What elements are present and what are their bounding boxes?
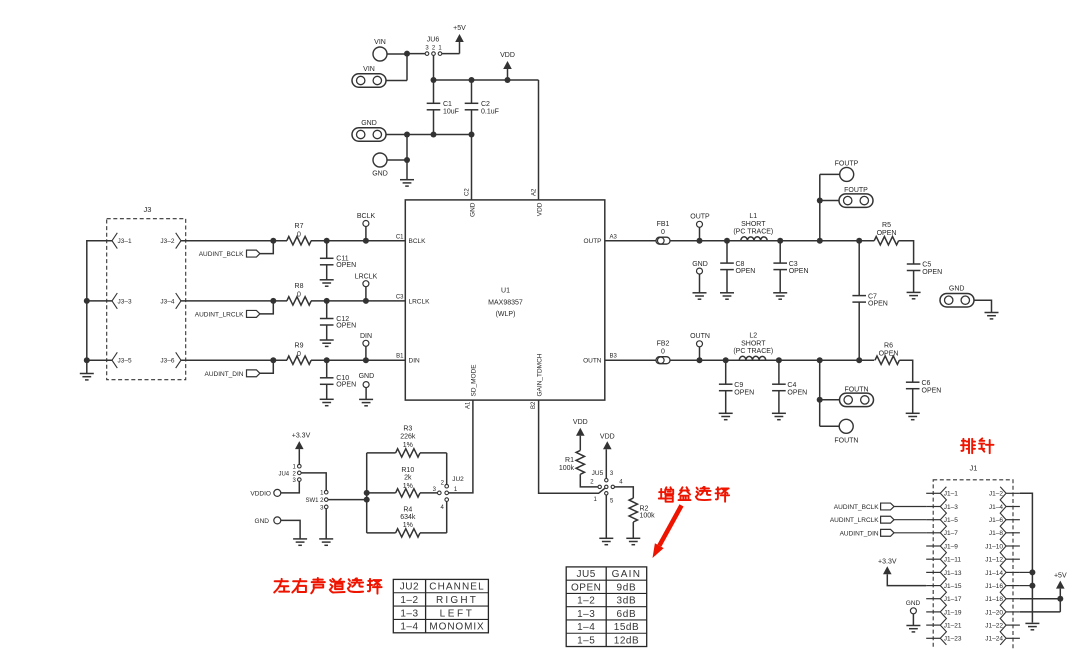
svg-text:GND: GND bbox=[359, 373, 375, 380]
svg-text:B3: B3 bbox=[610, 354, 618, 360]
svg-text:J1–12: J1–12 bbox=[985, 557, 1003, 564]
ground symbol top-left bbox=[400, 179, 414, 181]
svg-text:AUDINT_LRCLK: AUDINT_LRCLK bbox=[830, 517, 879, 524]
svg-text:A3: A3 bbox=[610, 234, 618, 240]
svg-text:L1: L1 bbox=[749, 213, 757, 220]
node DIN junction bbox=[363, 357, 369, 363]
svg-text:J3–3: J3–3 bbox=[118, 298, 132, 305]
capacitor C5 OPEN bbox=[907, 263, 921, 265]
svg-text:OPEN: OPEN bbox=[336, 262, 356, 269]
wire FOUTN branch bbox=[820, 360, 840, 426]
svg-text:(PC TRACE): (PC TRACE) bbox=[733, 229, 773, 236]
svg-text:CHANNEL: CHANNEL bbox=[429, 582, 485, 593]
svg-text:L2: L2 bbox=[749, 333, 757, 340]
svg-text:GND: GND bbox=[949, 285, 965, 292]
svg-text:OPEN: OPEN bbox=[879, 351, 899, 358]
capacitor C1 10uF bbox=[433, 80, 435, 103]
node FOUTN branch junction bbox=[817, 357, 823, 363]
svg-text:LRCLK: LRCLK bbox=[355, 273, 378, 280]
pin J3&#8211;1 bbox=[112, 233, 117, 249]
svg-text:J1–11: J1–11 bbox=[944, 557, 962, 564]
svg-text:J1–13: J1–13 bbox=[944, 570, 962, 577]
svg-text:J1–23: J1–23 bbox=[944, 636, 962, 643]
capacitor C4 OPEN bbox=[778, 360, 780, 384]
ground symbol below OUTP tp bbox=[693, 292, 707, 294]
svg-text:OPEN: OPEN bbox=[336, 382, 356, 389]
svg-text:GAIN_TDMCH: GAIN_TDMCH bbox=[536, 353, 543, 396]
svg-text:OUTN: OUTN bbox=[583, 358, 602, 365]
wire VDD rail bbox=[434, 80, 539, 200]
pin J1-22 bbox=[1006, 624, 1020, 626]
svg-text:R5: R5 bbox=[882, 222, 891, 229]
svg-text:R8: R8 bbox=[295, 283, 304, 290]
svg-text:JU2: JU2 bbox=[452, 476, 464, 483]
svg-text:GND: GND bbox=[255, 518, 270, 525]
table JU2 CHANNEL bbox=[393, 579, 488, 632]
test point GND circle bbox=[373, 153, 387, 167]
svg-text:JU6: JU6 bbox=[427, 37, 440, 44]
svg-text:GAIN: GAIN bbox=[612, 569, 642, 580]
resistor R3 226k 1% bbox=[367, 452, 396, 454]
svg-text:J3–2: J3–2 bbox=[160, 238, 174, 245]
svg-text:FB2: FB2 bbox=[657, 341, 670, 348]
svg-text:AUDINT_BCLK: AUDINT_BCLK bbox=[199, 251, 244, 258]
wire OUTP/OUTN rail y=240.7 bbox=[605, 240, 656, 242]
node J1-14 junction bbox=[1029, 569, 1035, 575]
pin J1-21 bbox=[926, 624, 940, 626]
svg-text:J3–5: J3–5 bbox=[118, 358, 132, 365]
svg-text:OPEN: OPEN bbox=[336, 322, 356, 329]
wire J1-14 to ground bus bbox=[1020, 571, 1033, 573]
red label pai-zhen (pin header) bbox=[961, 439, 975, 453]
pin J3&#8211;5 bbox=[112, 352, 117, 368]
pin J1-15 bbox=[926, 585, 940, 587]
pin J1-12 bbox=[1006, 558, 1020, 560]
svg-text:J1–16: J1–16 bbox=[985, 583, 1003, 590]
wire VDDIO to JU4 pin3 bbox=[281, 481, 300, 493]
svg-text:VIN: VIN bbox=[363, 66, 375, 73]
ground symbol under J1 GND tp bbox=[906, 625, 920, 627]
svg-text:0: 0 bbox=[297, 231, 301, 238]
svg-text:R3: R3 bbox=[403, 426, 412, 433]
svg-text:226k: 226k bbox=[400, 434, 416, 441]
svg-text:J1–14: J1–14 bbox=[985, 570, 1003, 577]
red arrow to JU5 table bbox=[659, 505, 681, 545]
node C9 junction bbox=[723, 357, 729, 363]
wire FOUTP branch bbox=[820, 174, 840, 240]
svg-text:AUDINT_DIN: AUDINT_DIN bbox=[204, 371, 243, 378]
svg-text:100k: 100k bbox=[640, 513, 656, 520]
svg-text:0: 0 bbox=[661, 348, 665, 355]
svg-text:1%: 1% bbox=[403, 483, 413, 490]
capacitor C7 OPEN bbox=[858, 241, 860, 296]
wire J1-2 to ground bus bbox=[1020, 493, 1033, 622]
node OUTN junction bbox=[697, 357, 703, 363]
svg-text:0: 0 bbox=[661, 229, 665, 236]
svg-text:R7: R7 bbox=[295, 223, 304, 230]
pin J1-16 bbox=[1006, 585, 1020, 587]
svg-text:+3.3V: +3.3V bbox=[292, 433, 311, 440]
svg-text:+5V: +5V bbox=[453, 25, 466, 32]
wire J1-16 to ground bus bbox=[1020, 585, 1033, 587]
svg-text:AUDINT_LRCLK: AUDINT_LRCLK bbox=[195, 311, 244, 318]
red label zeng-yi-xuan-ze (gain select) bbox=[659, 487, 673, 501]
ground symbol under GND tp bbox=[293, 538, 307, 540]
wire resistor bus vertical bbox=[366, 453, 368, 533]
svg-text:J1–8: J1–8 bbox=[989, 530, 1003, 537]
svg-text:OPEN: OPEN bbox=[734, 389, 754, 396]
wire J3 left bus bbox=[87, 241, 112, 374]
node C7 bottom junction bbox=[856, 357, 862, 363]
svg-text:U1: U1 bbox=[501, 288, 510, 295]
ground symbol C3 bbox=[773, 292, 787, 294]
svg-text:OPEN: OPEN bbox=[922, 387, 942, 394]
wire JU4 pin2 to SW1 pin1 bbox=[301, 473, 326, 491]
svg-text:12dB: 12dB bbox=[614, 635, 639, 646]
svg-text:634k: 634k bbox=[400, 514, 416, 521]
svg-text:3dB: 3dB bbox=[616, 596, 636, 607]
svg-text:BCLK: BCLK bbox=[409, 238, 427, 245]
svg-text:OPEN: OPEN bbox=[877, 230, 897, 237]
svg-text:1%: 1% bbox=[403, 442, 413, 449]
svg-text:GND: GND bbox=[692, 261, 708, 268]
svg-text:C4: C4 bbox=[787, 382, 796, 389]
svg-text:100k: 100k bbox=[559, 465, 575, 472]
pin J1-14 bbox=[1006, 571, 1020, 573]
resistor R8 0 bbox=[287, 297, 311, 305]
pin J1-11 bbox=[926, 558, 940, 560]
svg-text:JU2: JU2 bbox=[400, 582, 419, 593]
svg-text:FOUTN: FOUTN bbox=[834, 438, 858, 445]
node LRCLK junction bbox=[363, 298, 369, 304]
capacitor C3 OPEN bbox=[779, 241, 781, 263]
wire JU6 pin1 to +5V bbox=[442, 42, 460, 54]
wire R5 to C5 bbox=[899, 241, 914, 264]
svg-text:J3–6: J3–6 bbox=[160, 358, 174, 365]
svg-text:0: 0 bbox=[297, 351, 301, 358]
node FOUTN oval junction bbox=[817, 397, 823, 403]
connector J1 left pin zigzag bbox=[940, 487, 946, 645]
node C7 top junction bbox=[856, 238, 862, 244]
pin J1-17 bbox=[926, 598, 940, 600]
svg-text:SHORT: SHORT bbox=[741, 221, 766, 228]
svg-text:LEFT: LEFT bbox=[440, 608, 475, 619]
connector J1 dashed outline bbox=[933, 480, 1013, 649]
svg-text:1–4: 1–4 bbox=[577, 622, 595, 633]
ground symbol C5 bbox=[907, 291, 921, 293]
svg-text:1–5: 1–5 bbox=[577, 635, 595, 646]
resistor R9 0 bbox=[287, 356, 311, 364]
node GND tp junction bbox=[404, 157, 410, 163]
wire U1 GAIN pin to JU5 bbox=[539, 400, 605, 493]
wire GND drop bbox=[406, 135, 408, 180]
node VDD rail bbox=[431, 77, 437, 83]
svg-text:C5: C5 bbox=[922, 262, 931, 269]
svg-text:R1: R1 bbox=[565, 457, 574, 464]
capacitor C11 OPEN bbox=[326, 241, 328, 259]
node J1-16 junction bbox=[1029, 583, 1035, 589]
pin J1-24 bbox=[1006, 637, 1020, 639]
svg-text:R10: R10 bbox=[401, 467, 414, 474]
node BCLK junction bbox=[363, 238, 369, 244]
ground symbol right bbox=[985, 312, 999, 314]
svg-text:J1: J1 bbox=[969, 464, 977, 473]
svg-text:J1–17: J1–17 bbox=[944, 596, 962, 603]
node J3 bus junctions bbox=[84, 298, 90, 304]
svg-text:J1–10: J1–10 bbox=[985, 543, 1003, 550]
wire R4 to JU2 pin4 bbox=[446, 501, 448, 533]
svg-text:J1–3: J1–3 bbox=[944, 504, 958, 511]
resistor R7 0 bbox=[287, 237, 311, 245]
svg-text:J1–1: J1–1 bbox=[944, 491, 958, 498]
svg-text:FB1: FB1 bbox=[657, 221, 670, 228]
svg-text:1–3: 1–3 bbox=[400, 608, 418, 619]
svg-text:VDD: VDD bbox=[600, 433, 615, 440]
capacitor C10 OPEN bbox=[326, 360, 328, 378]
svg-text:B2: B2 bbox=[531, 401, 537, 409]
svg-text:2k: 2k bbox=[404, 475, 412, 482]
connector J1 right pin zigzag bbox=[1000, 487, 1006, 645]
resistor R2 100k bbox=[629, 498, 637, 522]
wire R3 to JU2 pin2 bbox=[446, 453, 448, 485]
ground symbol C12 bbox=[320, 339, 334, 341]
svg-text:GND: GND bbox=[361, 120, 377, 127]
wire R2 to ground bbox=[632, 522, 634, 538]
node R8 output junction bbox=[324, 298, 330, 304]
svg-text:J1–9: J1–9 bbox=[944, 543, 958, 550]
svg-text:GND: GND bbox=[906, 600, 921, 607]
svg-text:C7: C7 bbox=[868, 293, 877, 300]
node FOUTP oval junction bbox=[817, 198, 823, 204]
pin J1-9 bbox=[926, 545, 940, 547]
svg-text:OUTP: OUTP bbox=[690, 213, 710, 220]
svg-text:J1–18: J1–18 bbox=[985, 596, 1003, 603]
pin J1-10 bbox=[1006, 545, 1020, 547]
svg-text:J1–6: J1–6 bbox=[989, 517, 1003, 524]
svg-text:+3.3V: +3.3V bbox=[878, 558, 897, 565]
svg-text:OUTP: OUTP bbox=[583, 238, 601, 245]
wire VIN to JU6 pin3 bbox=[407, 53, 425, 55]
svg-text:OUTN: OUTN bbox=[690, 333, 710, 340]
svg-text:OPEN: OPEN bbox=[789, 268, 809, 275]
svg-text:A1: A1 bbox=[466, 401, 472, 409]
svg-text:VIN: VIN bbox=[374, 39, 386, 46]
wire JU6 pin2 to VDD rail bbox=[433, 55, 435, 80]
svg-text:1–3: 1–3 bbox=[577, 609, 595, 620]
node J1-18 junction bbox=[1057, 596, 1063, 602]
svg-text:AUDINT_DIN: AUDINT_DIN bbox=[840, 530, 879, 537]
svg-text:C1: C1 bbox=[396, 234, 404, 240]
svg-text:JU4 2: JU4 2 bbox=[278, 472, 296, 478]
svg-text:10uF: 10uF bbox=[443, 108, 459, 115]
svg-text:LRCLK: LRCLK bbox=[409, 298, 431, 305]
op-amp U1 MAX98357 body bbox=[405, 200, 605, 400]
pin J1-23 bbox=[926, 637, 940, 639]
svg-text:0: 0 bbox=[297, 292, 301, 299]
wire C2 bottom to U1 GND pin bbox=[471, 135, 473, 200]
node AUDINT_BCLK junction bbox=[270, 238, 276, 244]
ground symbol C8 bbox=[720, 292, 734, 294]
svg-text:JU5: JU5 bbox=[577, 569, 596, 580]
ground symbol C6 bbox=[906, 412, 920, 414]
svg-text:BCLK: BCLK bbox=[357, 213, 376, 220]
pin J3&#8211;3 bbox=[112, 293, 117, 309]
svg-text:RIGHT: RIGHT bbox=[436, 595, 478, 606]
svg-text:MAX98357: MAX98357 bbox=[488, 299, 523, 306]
ground symbol under SW1 bbox=[319, 538, 333, 540]
red label zuo-you-sheng-dao-xuan-ze (channel select) bbox=[274, 579, 289, 593]
svg-text:OPEN: OPEN bbox=[571, 582, 601, 593]
svg-text:C3: C3 bbox=[396, 294, 404, 300]
capacitor C9 OPEN bbox=[725, 360, 727, 384]
node C3 junction bbox=[777, 238, 783, 244]
svg-text:R6: R6 bbox=[884, 342, 893, 349]
svg-text:OPEN: OPEN bbox=[736, 268, 756, 275]
svg-text:J1–20: J1–20 bbox=[985, 609, 1003, 616]
svg-text:C6: C6 bbox=[922, 380, 931, 387]
ground symbol C9 bbox=[719, 412, 733, 414]
capacitor C8 OPEN bbox=[726, 241, 728, 263]
svg-text:R9: R9 bbox=[295, 342, 304, 349]
svg-text:J3–1: J3–1 bbox=[118, 238, 132, 245]
wire +5V to J1-18 and J1-20 bbox=[1020, 589, 1060, 612]
ground symbol under JU5 bbox=[599, 537, 613, 539]
node FOUTP branch junction bbox=[817, 238, 823, 244]
svg-text:DIN: DIN bbox=[409, 358, 421, 365]
pin J1-5 bbox=[926, 519, 940, 521]
node VIN junction bbox=[404, 51, 410, 57]
node C8 junction bbox=[724, 238, 730, 244]
wire JU5 pin4 to R2 bbox=[615, 487, 634, 498]
ground symbol J1 right bus bbox=[1025, 622, 1039, 624]
wire R6 to C6 bbox=[899, 360, 912, 382]
svg-text:R4: R4 bbox=[403, 507, 412, 514]
wire SW1 pin3 to ground bbox=[325, 509, 327, 539]
svg-text:(WLP): (WLP) bbox=[496, 311, 516, 318]
ground symbol C4 bbox=[772, 412, 786, 414]
svg-text:B1: B1 bbox=[396, 354, 404, 360]
table JU5 GAIN bbox=[566, 567, 647, 647]
svg-text:SW1 2: SW1 2 bbox=[305, 498, 324, 504]
svg-text:15dB: 15dB bbox=[614, 622, 639, 633]
pin J1-4 bbox=[1006, 506, 1020, 508]
svg-text:OPEN: OPEN bbox=[868, 301, 888, 308]
ground symbol J3 bus bbox=[80, 373, 94, 375]
resistor R1 100k bbox=[576, 450, 584, 474]
svg-text:A2: A2 bbox=[532, 188, 538, 196]
svg-text:VDD: VDD bbox=[573, 419, 588, 426]
svg-text:J3–4: J3–4 bbox=[160, 298, 174, 305]
wire +3.3V to J1-15 bbox=[887, 574, 926, 585]
capacitor C12 OPEN bbox=[326, 301, 328, 319]
wire SW1 pin2 to resistor bus bbox=[328, 499, 367, 501]
ground symbol C10 bbox=[320, 398, 334, 400]
svg-text:VDD: VDD bbox=[500, 52, 515, 59]
node C4 junction bbox=[776, 357, 782, 363]
capacitor C6 OPEN bbox=[906, 381, 920, 383]
svg-text:J1–2: J1–2 bbox=[989, 491, 1003, 498]
node R7 output junction bbox=[324, 238, 330, 244]
svg-text:C2: C2 bbox=[465, 188, 471, 196]
svg-text:J1–7: J1–7 bbox=[944, 530, 958, 537]
pin J1-3 bbox=[926, 506, 940, 508]
node AUDINT_LRCLK junction bbox=[270, 298, 276, 304]
svg-text:OPEN: OPEN bbox=[922, 269, 942, 276]
pin J1-7 bbox=[926, 532, 940, 534]
pin J1-1 bbox=[926, 492, 940, 494]
svg-text:J1–19: J1–19 bbox=[944, 609, 962, 616]
svg-text:J3: J3 bbox=[144, 205, 152, 214]
wire GND oval to ground bbox=[974, 300, 992, 312]
svg-text:1%: 1% bbox=[403, 522, 413, 529]
wire JU2 pin1 to U1 SD_MODE bbox=[449, 400, 473, 493]
wire R1 to JU5 pin2 bbox=[580, 474, 598, 487]
ground symbol near DIN bbox=[359, 398, 373, 400]
pin J1-19 bbox=[926, 611, 940, 613]
node bus junctions bbox=[364, 490, 370, 496]
resistor R4 634k 1% bbox=[367, 532, 396, 534]
svg-text:C8: C8 bbox=[736, 261, 745, 268]
svg-text:J1–15: J1–15 bbox=[944, 583, 962, 590]
svg-text:MONOMIX: MONOMIX bbox=[429, 622, 484, 633]
svg-text:OPEN: OPEN bbox=[787, 389, 807, 396]
svg-text:FOUTP: FOUTP bbox=[835, 160, 859, 167]
svg-text:C9: C9 bbox=[734, 382, 743, 389]
test point FOUTN circle bbox=[839, 419, 853, 433]
svg-text:J1–5: J1–5 bbox=[944, 517, 958, 524]
pin J1-18 bbox=[1006, 598, 1020, 600]
node OUTP junction bbox=[697, 238, 703, 244]
pin J1-6 bbox=[1006, 519, 1020, 521]
svg-text:JU5: JU5 bbox=[592, 470, 604, 477]
svg-text:0.1uF: 0.1uF bbox=[481, 108, 499, 115]
svg-text:6dB: 6dB bbox=[616, 609, 636, 620]
svg-text:C1: C1 bbox=[443, 101, 452, 108]
pin J1-2 bbox=[1006, 492, 1020, 494]
svg-text:R2: R2 bbox=[640, 505, 649, 512]
svg-text:J1–21: J1–21 bbox=[944, 623, 962, 630]
node GND rail bbox=[404, 132, 410, 138]
connector J3 dashed outline bbox=[107, 219, 186, 380]
svg-text:C3: C3 bbox=[789, 261, 798, 268]
wire GND rail bbox=[407, 134, 472, 136]
svg-text:9dB: 9dB bbox=[616, 582, 636, 593]
svg-text:+5V: +5V bbox=[1054, 573, 1067, 580]
svg-text:C2: C2 bbox=[481, 101, 490, 108]
node R9 output junction bbox=[324, 357, 330, 363]
svg-text:VDDIO: VDDIO bbox=[250, 491, 271, 498]
svg-text:1–2: 1–2 bbox=[400, 595, 418, 606]
wire JU5 pin5 to ground bbox=[605, 495, 607, 538]
svg-text:SHORT: SHORT bbox=[741, 341, 766, 348]
svg-text:SD_MODE: SD_MODE bbox=[471, 364, 478, 397]
wire GND tp to ground bbox=[281, 520, 300, 539]
svg-text:J1–22: J1–22 bbox=[985, 623, 1003, 630]
svg-text:DIN: DIN bbox=[360, 333, 372, 340]
ground symbol C11 bbox=[320, 279, 334, 281]
capacitor C2 0.1uF bbox=[471, 80, 473, 103]
svg-text:1–4: 1–4 bbox=[400, 622, 418, 633]
svg-text:GND: GND bbox=[470, 202, 477, 217]
pin J1-13 bbox=[926, 571, 940, 573]
svg-text:GND: GND bbox=[372, 171, 388, 178]
svg-text:J1–24: J1–24 bbox=[985, 636, 1003, 643]
wire AUDINT_LRCLK row bbox=[181, 300, 287, 302]
pin J1-8 bbox=[1006, 532, 1020, 534]
node AUDINT_DIN junction bbox=[270, 357, 276, 363]
svg-text:(PC TRACE): (PC TRACE) bbox=[733, 348, 773, 355]
wire AUDINT_BCLK row bbox=[181, 240, 287, 242]
